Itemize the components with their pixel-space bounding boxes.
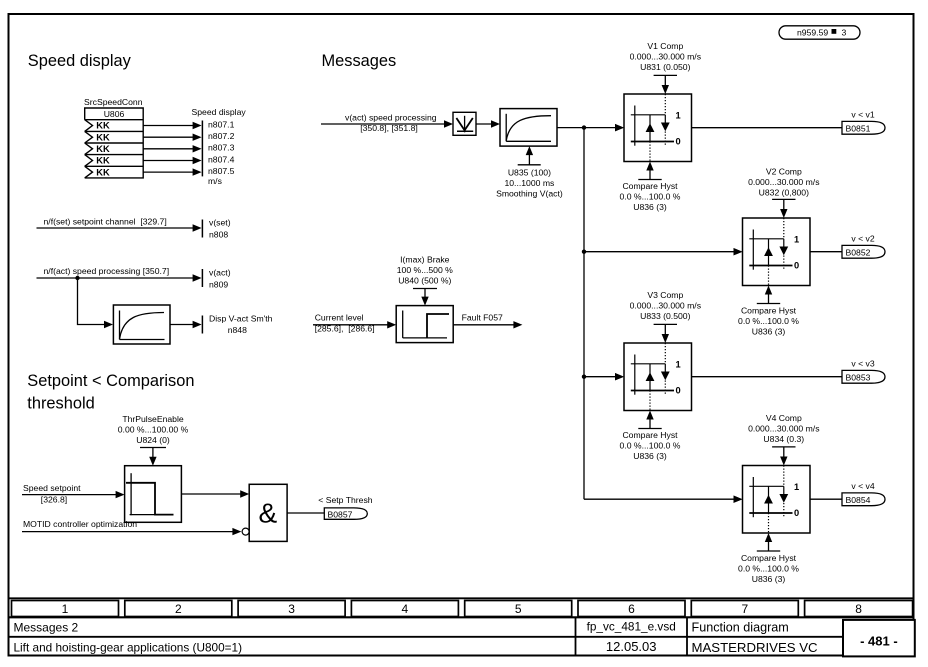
node v(set) n808 (37, 217, 231, 240)
node v(act) speed processing input (321, 112, 453, 133)
svg-text:threshold: threshold (27, 394, 94, 412)
svg-text:U836 (3): U836 (3) (752, 574, 786, 584)
node Speed setpoint input (22, 483, 125, 505)
junction node V3 (582, 375, 586, 379)
parameter pill n959.59 = 3 (779, 26, 860, 39)
svg-text:Messages: Messages (322, 52, 397, 70)
svg-text:Smoothing V(act): Smoothing V(act) (496, 188, 563, 198)
svg-text:7: 7 (741, 602, 748, 616)
wire to V2 (584, 251, 737, 253)
footer texts (14, 620, 915, 657)
speed display output list n807 (143, 107, 246, 186)
wire to V3 (584, 376, 618, 378)
svg-text:I(max) Brake: I(max) Brake (400, 254, 450, 264)
svg-text:v < v2: v < v2 (851, 234, 874, 244)
threshold block U824 ThrPulseEnable (118, 414, 189, 522)
svg-text:v < v3: v < v3 (851, 359, 874, 369)
svg-text:6: 6 (628, 602, 635, 616)
wire Fault F057 output (453, 312, 522, 328)
svg-text:Compare Hyst: Compare Hyst (741, 553, 797, 563)
svg-text:MOTID controller optimization: MOTID controller optimization (23, 519, 137, 529)
svg-text:B0853: B0853 (846, 373, 871, 383)
binector output B0857 (318, 495, 372, 519)
binector output B0852 (842, 234, 885, 259)
svg-text:V3 Comp: V3 Comp (647, 290, 683, 300)
heading Setpoint < Comparison threshold (27, 372, 194, 412)
svg-text:Compare Hyst: Compare Hyst (622, 181, 678, 191)
svg-text:0.000...30.000 m/s: 0.000...30.000 m/s (630, 52, 701, 62)
comparator U831 V1 (615, 41, 701, 212)
svg-text:KK: KK (96, 144, 110, 154)
svg-text:n807.5: n807.5 (208, 166, 235, 176)
wire AND to B0857 (287, 512, 324, 514)
wire branch down to smoothing block (78, 278, 108, 325)
absolute value block (453, 112, 476, 135)
svg-text:5: 5 (515, 602, 522, 616)
svg-text:B0854: B0854 (846, 495, 871, 505)
svg-text:n809: n809 (209, 279, 228, 289)
wire U824 to AND gate (181, 493, 243, 495)
svg-text:v(act) speed processing: v(act) speed processing (345, 112, 437, 122)
svg-text:&: & (258, 498, 277, 529)
svg-text:0.0 %...100.0 %: 0.0 %...100.0 % (738, 316, 799, 326)
svg-text:Messages 2: Messages 2 (14, 621, 79, 635)
heading Messages (322, 52, 397, 70)
svg-text:U835 (100): U835 (100) (508, 167, 551, 177)
vertical distribution wire (583, 128, 585, 500)
wire V2 output (810, 251, 842, 253)
svg-text:ThrPulseEnable: ThrPulseEnable (122, 414, 184, 424)
binector output B0851 (842, 110, 885, 135)
binector output B0854 (842, 481, 885, 506)
svg-text:- 481 -: - 481 - (860, 633, 898, 648)
svg-text:3: 3 (288, 602, 295, 616)
svg-text:2: 2 (175, 602, 182, 616)
svg-text:U806: U806 (104, 109, 125, 119)
node Current level input (313, 312, 396, 333)
svg-text:U836 (3): U836 (3) (633, 451, 667, 461)
svg-text:Speed display: Speed display (192, 107, 247, 117)
svg-text:KK: KK (96, 167, 110, 177)
svg-text:Speed display: Speed display (28, 52, 132, 70)
svg-text:B0851: B0851 (846, 124, 871, 134)
node v(act) n809 (37, 266, 231, 289)
svg-text:0.000...30.000 m/s: 0.000...30.000 m/s (748, 177, 819, 187)
svg-text:0.0 %...100.0 %: 0.0 %...100.0 % (620, 441, 681, 451)
svg-text:n848: n848 (228, 325, 247, 335)
footer column number cells (12, 601, 913, 617)
junction on v(act) line (75, 276, 79, 280)
comparator U832 V2 (734, 167, 820, 337)
svg-text:100 %...500 %: 100 %...500 % (397, 265, 453, 275)
svg-text:[326.8]: [326.8] (41, 495, 67, 505)
svg-text:Compare Hyst: Compare Hyst (741, 306, 797, 316)
svg-text:SrcSpeedConn: SrcSpeedConn (84, 97, 143, 107)
fault block U840 I(max) Brake (396, 254, 453, 342)
AND gate U/& (242, 484, 287, 541)
svg-text:0.000...30.000 m/s: 0.000...30.000 m/s (748, 424, 819, 434)
svg-text:m/s: m/s (208, 176, 222, 186)
output wire Disp V-act Sm'th (170, 313, 273, 335)
svg-text:Setpoint < Comparison: Setpoint < Comparison (27, 372, 194, 390)
svg-text:V4 Comp: V4 Comp (766, 413, 802, 423)
svg-text:V1 Comp: V1 Comp (647, 41, 683, 51)
connector block U806 SrcSpeedConn (84, 97, 143, 178)
svg-text:KK: KK (96, 132, 110, 142)
svg-text:U834 (0.3): U834 (0.3) (763, 434, 804, 444)
svg-text:0.00 %...100.00 %: 0.00 %...100.00 % (118, 425, 189, 435)
svg-text:V2 Comp: V2 Comp (766, 167, 802, 177)
comparator U833 V3 (615, 290, 701, 461)
smoothing block n848 (113, 305, 170, 344)
svg-text:n807.4: n807.4 (208, 154, 235, 164)
svg-text:U831 (0.050): U831 (0.050) (640, 62, 690, 72)
svg-text:B0857: B0857 (328, 509, 353, 519)
svg-text:U833 (0.500): U833 (0.500) (640, 311, 690, 321)
footer title block lines (9, 617, 914, 655)
svg-text:v(set): v(set) (209, 218, 231, 228)
svg-text:Speed setpoint: Speed setpoint (23, 483, 81, 493)
svg-text:1: 1 (62, 602, 69, 616)
svg-text:n/f(set) setpoint channel [32: n/f(set) setpoint channel [329.7] (44, 217, 167, 227)
wire V3 output (692, 376, 843, 378)
svg-text:n/f(act) speed processing [350: n/f(act) speed processing [350.7] (44, 266, 170, 276)
svg-text:0.0 %...100.0 %: 0.0 %...100.0 % (738, 564, 799, 574)
svg-text:Lift and hoisting-gear applica: Lift and hoisting-gear applications (U80… (14, 641, 243, 655)
svg-text:n807.2: n807.2 (208, 131, 235, 141)
svg-text:Disp V-act Sm'th: Disp V-act Sm'th (209, 313, 273, 323)
svg-text:Function diagram: Function diagram (692, 621, 789, 635)
svg-text:3: 3 (842, 27, 847, 37)
wire V1 output (692, 127, 843, 129)
svg-text:v < v1: v < v1 (851, 110, 874, 120)
smoothing block U835 (496, 109, 563, 199)
inverter circle on MOTID input (242, 528, 249, 535)
svg-text:MASTERDRIVES VC: MASTERDRIVES VC (692, 640, 819, 655)
svg-text:0.0 %...100.0 %: 0.0 %...100.0 % (620, 192, 681, 202)
heading Speed display (28, 52, 132, 70)
svg-text:U824 (0): U824 (0) (136, 435, 170, 445)
wire abs to smoothing (476, 123, 494, 125)
svg-text:Compare Hyst: Compare Hyst (622, 430, 678, 440)
svg-text:U840 (500 %): U840 (500 %) (398, 275, 451, 285)
wire to V4 (584, 498, 737, 500)
binector output B0853 (842, 359, 885, 384)
footer: drawing area bottom line (9, 597, 914, 599)
svg-text:n807.1: n807.1 (208, 119, 235, 129)
svg-text:12.05.03: 12.05.03 (606, 639, 657, 654)
junction node (582, 125, 586, 129)
svg-text:n808: n808 (209, 229, 228, 239)
node MOTID controller optimization (22, 519, 241, 535)
svg-text:KK: KK (96, 156, 110, 166)
KK input chevrons (85, 120, 93, 132)
svg-text:v(act): v(act) (209, 268, 231, 278)
svg-text:n807.3: n807.3 (208, 143, 235, 153)
svg-text:8: 8 (855, 602, 862, 616)
svg-text:n959.59: n959.59 (797, 27, 828, 37)
main wire smoothing to V1 (557, 127, 618, 129)
wire V4 output (810, 498, 842, 500)
svg-text:Fault F057: Fault F057 (462, 312, 503, 322)
svg-text:U832 (0,800): U832 (0,800) (759, 188, 809, 198)
svg-text:KK: KK (96, 121, 110, 131)
svg-text:4: 4 (402, 602, 409, 616)
svg-text:v < v4: v < v4 (851, 481, 874, 491)
comparator U834 V4 (734, 413, 820, 584)
U835 bottom arrow (528, 154, 530, 165)
svg-text:U836 (3): U836 (3) (633, 202, 667, 212)
svg-text:Current level: Current level (315, 312, 364, 322)
svg-text:< Setp Thresh: < Setp Thresh (318, 495, 372, 505)
svg-text:fp_vc_481_e.vsd: fp_vc_481_e.vsd (587, 620, 676, 634)
svg-text:0.000...30.000 m/s: 0.000...30.000 m/s (630, 301, 701, 311)
svg-text:B0852: B0852 (846, 248, 871, 258)
svg-text:U836 (3): U836 (3) (752, 327, 786, 337)
junction node V2 (582, 250, 586, 254)
svg-text:10...1000 ms: 10...1000 ms (504, 178, 554, 188)
